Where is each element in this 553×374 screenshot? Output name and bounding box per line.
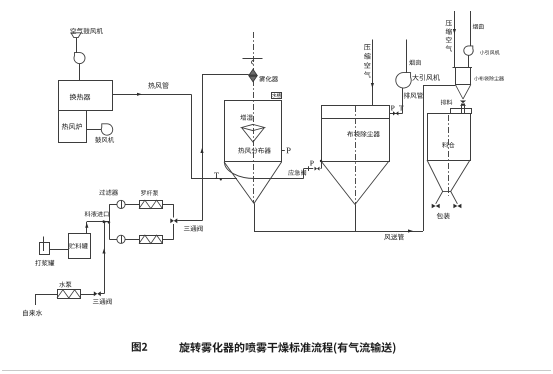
label: air blower 空气鼓风机	[71, 28, 103, 34]
label: silo 料仓	[442, 142, 454, 148]
arrow: conveying flow right	[408, 229, 413, 232]
label: small ID fan 小引风机	[480, 50, 500, 55]
arrow: compressed air down	[371, 83, 374, 88]
label: atomizer 雾化器	[259, 76, 278, 82]
wire: bag filter outlet stub to fan	[389, 113, 403, 115]
valve V7 left packing valve	[432, 204, 436, 209]
label: chimney 烟囱 right	[473, 24, 484, 29]
node: feed junction dot	[108, 221, 111, 224]
wire: furnace to combustion blower	[86, 129, 101, 131]
tick T on emergency line	[308, 166, 310, 171]
silo centerline dash-dot	[448, 115, 450, 196]
hot air distributor cone 热风分布器	[242, 124, 265, 142]
label: conveying pipe 风送管	[384, 234, 404, 240]
wire: tower drop leg to conveying line	[254, 204, 256, 232]
label: temperature tap T at tower inlet	[214, 173, 219, 179]
valve V1 three-way valve feed 三通阀	[170, 218, 174, 223]
wire: pneumatic conveying line 风送管	[254, 231, 423, 233]
valve V3 three-way valve at water line 三通阀	[94, 291, 98, 296]
silo top cap box	[451, 109, 472, 114]
wire: feed riser to atomizer	[202, 74, 204, 220]
bag filter cone bottom	[321, 161, 389, 205]
wire: feed inlet line 料液进口	[87, 221, 106, 223]
node: junction dot at bag filter corner	[320, 160, 322, 162]
label: water pump 水泵	[59, 282, 71, 288]
label: screw pump 罗杆泵	[141, 190, 158, 196]
label: small bag filter 小布袋除尘器	[474, 76, 504, 81]
wire: hot air pipe 热风管	[113, 94, 192, 96]
wire: filter to screw pump lower	[125, 239, 139, 241]
label: tap water 自来水	[23, 310, 42, 316]
wire: hot air pipe down leg	[191, 94, 193, 178]
label: three-way valve 三通阀 upper	[184, 226, 203, 232]
wire: tap water inlet pipe	[35, 294, 37, 305]
tank T1 feed storage tank 贮料罐	[69, 234, 91, 259]
pump P2 lower screw pump	[140, 236, 163, 244]
silo discharge legs split	[436, 191, 458, 203]
bag filter centerline dash-dot	[355, 106, 357, 204]
wire: intake to blower fan	[76, 38, 78, 53]
bag filter housing 布袋除尘器	[322, 106, 390, 162]
wire: compressed air line right	[454, 11, 456, 68]
caption: figure number 图2	[132, 342, 147, 351]
valve V5 damper on outlet stub	[393, 111, 396, 115]
arrow: feed riser flow up	[200, 148, 203, 153]
tower centerline dash-dot	[253, 32, 255, 203]
bag filter tube sheet line	[321, 118, 389, 120]
label: filter 过滤器	[99, 190, 118, 196]
label: three-way valve 三通阀 lower	[93, 299, 112, 305]
fan B4 small induced draft fan 小引风机	[464, 46, 473, 55]
label: exhaust duct 排风管	[404, 92, 423, 98]
air intake filter funnel	[71, 33, 81, 38]
small c hook under tick	[251, 60, 254, 64]
bag filter wall stub to emergency valve	[321, 161, 323, 169]
fan B1 air blower	[74, 53, 85, 64]
pressure tap P on tower wall	[282, 150, 285, 152]
arrow: tank outlet flow up	[85, 223, 88, 228]
label: chimney 烟囱	[409, 60, 421, 66]
label: compressed air 压缩空气 vertical right	[446, 20, 452, 51]
wire: bag filter drop leg	[355, 205, 357, 232]
wire: duct up to induced draft fan	[402, 88, 404, 114]
arrow: hot air flow right	[137, 93, 142, 96]
filter F2 lower strainer	[117, 235, 125, 243]
arrow: feed into junction	[103, 220, 108, 223]
wire: conveying riser to small bag filter	[423, 86, 425, 231]
water tank box 水槽	[272, 93, 282, 99]
arrow: compressed air down right	[453, 29, 456, 34]
wire: filter to screw pump upper	[125, 204, 139, 206]
tower cone bottom	[224, 162, 282, 204]
wire: water riser to feed junction	[100, 293, 104, 295]
valve V4 emergency valve bowtie	[315, 167, 318, 171]
label: discharge 排料	[441, 100, 453, 106]
wire: small fan to small bag filter	[468, 55, 470, 67]
filter F1 upper strainer 过滤器	[117, 200, 125, 208]
label: bag filter 布袋除尘器	[347, 131, 380, 137]
valve V6 rotary discharge under small filter	[460, 101, 466, 104]
wire: feed line to riser	[177, 220, 202, 222]
scan artifact bottom line	[2, 370, 551, 372]
wire: water pump outlet	[81, 294, 95, 296]
label: combustion blower 鼓风机	[95, 137, 114, 143]
wire: blower to heat exchanger	[79, 64, 81, 80]
label: compressed air 压缩空气 vertical	[364, 44, 371, 78]
wire: tower exhaust duct to bag filter	[255, 178, 304, 180]
wire: valve to bag filter wall	[320, 168, 323, 170]
labels: P T taps at bag filter outlet	[391, 106, 395, 111]
drying tower chamber body	[225, 101, 282, 162]
label: hot air pipe 热风管	[148, 82, 168, 89]
atomizer U1 rotary atomizer 雾化器	[249, 69, 257, 75]
label: large ID fan 大引风机	[412, 74, 440, 81]
wire: storage tank outlet riser	[86, 222, 88, 234]
silo housing 料仓	[428, 114, 471, 161]
wire: upper pump outlet	[163, 204, 174, 206]
label: pressure tap P at emergency valve	[310, 161, 314, 166]
internal exhaust duct bend arc	[224, 162, 255, 179]
small bag filter cone	[455, 84, 471, 99]
pump P3 water pump body 水泵	[58, 290, 81, 299]
heat exchanger box 换热器	[59, 81, 113, 111]
fan B3 large induced draft fan 大引风机	[396, 73, 411, 88]
small bag filter housing 小布袋除尘器	[456, 68, 471, 85]
label: tower body 塔体	[240, 114, 252, 120]
small bag filter cap line	[453, 67, 473, 69]
label: heat exchanger 换热器	[70, 94, 91, 101]
label: water tank 水槽	[272, 93, 281, 97]
node: tap dot on inlet line	[220, 178, 222, 180]
hot air furnace box 热风炉	[59, 111, 87, 143]
wire: beating tank to storage tank	[49, 249, 68, 251]
wire: valve outlet double neck into silo cap	[461, 104, 463, 114]
fan B2 combustion blower 鼓风机	[101, 124, 112, 135]
label: feed inlet 料液进口	[85, 211, 109, 217]
label: hot air furnace 热风炉	[62, 123, 82, 130]
wire: compressed air line to bag filter	[372, 40, 374, 106]
arrow: water riser flow up	[102, 249, 105, 254]
wire: lower branch to filter	[109, 239, 117, 241]
label: hot air distributor 热风分布器	[238, 147, 270, 153]
tick on centerline above atomizer	[243, 58, 263, 60]
wire: hot air into tower cone	[191, 178, 237, 180]
silo cone bottom	[427, 160, 470, 191]
caption: title 旋转雾化器的喷雾干燥标准流程(有气流输送)	[179, 342, 395, 354]
pump P1 upper screw pump 罗杆泵	[140, 201, 163, 209]
label: packaging 包装	[437, 213, 450, 219]
tank T2 slurry beating tank 打浆罐	[40, 243, 50, 255]
valve V8 right packing valve	[453, 204, 457, 209]
wire: lower pump outlet	[163, 239, 174, 241]
wire: small fan chimney	[470, 11, 472, 46]
label: storage tank 贮料罐	[69, 243, 88, 249]
wire: upper branch to filter	[109, 204, 117, 206]
label: beating tank 打浆罐	[35, 260, 54, 266]
wire: junction manifold vertical	[109, 204, 111, 239]
wire: chimney riser 烟囱	[406, 40, 408, 73]
label: emergency valve 应急阀	[288, 170, 306, 176]
